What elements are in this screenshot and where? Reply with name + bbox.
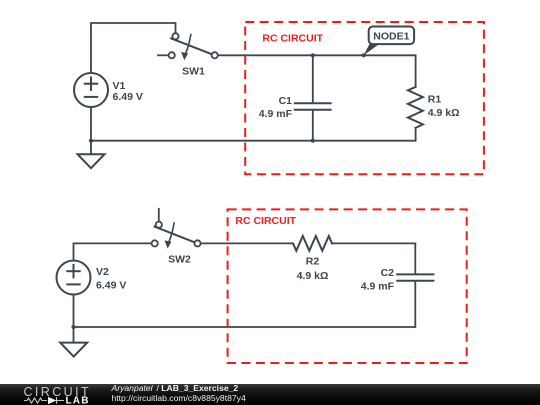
svg-text:6.49 V: 6.49 V	[96, 280, 126, 292]
svg-text:SW1: SW1	[182, 65, 205, 77]
svg-text:C2: C2	[381, 267, 395, 279]
svg-text:4.9 kΩ: 4.9 kΩ	[428, 107, 460, 119]
svg-text:V1: V1	[113, 80, 126, 92]
svg-text:C1: C1	[279, 95, 293, 107]
svg-text:Aryanpatel / LAB_3_Exercise_2: Aryanpatel / LAB_3_Exercise_2	[111, 383, 239, 393]
svg-text:RC CIRCUIT: RC CIRCUIT	[262, 33, 323, 45]
svg-text:RC CIRCUIT: RC CIRCUIT	[235, 215, 296, 227]
svg-text:R2: R2	[306, 256, 320, 268]
svg-text:http://circuitlab.com/c8v885y8: http://circuitlab.com/c8v885y8t87y4	[112, 393, 246, 403]
svg-text:4.9 mF: 4.9 mF	[361, 281, 395, 293]
svg-text:4.9 mF: 4.9 mF	[259, 108, 293, 120]
svg-text:NODE1: NODE1	[373, 31, 409, 43]
svg-text:SW2: SW2	[168, 254, 191, 266]
svg-text:6.49 V: 6.49 V	[113, 91, 143, 103]
svg-text:R1: R1	[428, 93, 442, 105]
svg-text:V2: V2	[96, 266, 109, 278]
svg-text:4.9 kΩ: 4.9 kΩ	[297, 270, 329, 282]
svg-text:LAB: LAB	[66, 396, 90, 405]
